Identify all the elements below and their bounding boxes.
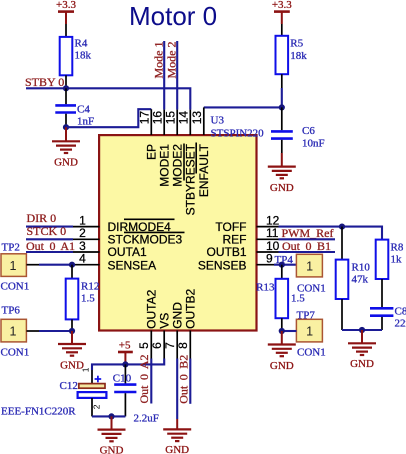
- svg-text:STBY 0: STBY 0: [25, 75, 64, 89]
- svg-text:16: 16: [150, 111, 164, 125]
- node TOFF/R10 junction: [339, 224, 345, 230]
- svg-text:GND: GND: [350, 358, 374, 370]
- wire STBY 0 to pin 14: [26, 88, 190, 109]
- wire REF pin 11: [279, 238, 336, 240]
- wire OUTA2 pin 5: [150, 359, 152, 404]
- svg-text:1.5: 1.5: [81, 293, 95, 305]
- wire bottom node R10 to C8: [342, 329, 382, 331]
- pin 8 stub: [176, 331, 190, 359]
- wire +3.3 to R4: [65, 24, 67, 37]
- pin name STBYRESET with overline on RESET: [184, 143, 198, 215]
- svg-text:EEE-FN1C220R: EEE-FN1C220R: [1, 406, 76, 418]
- svg-text:1nF: 1nF: [77, 116, 94, 128]
- svg-text:DIR 0: DIR 0: [27, 211, 57, 225]
- pin 1 stub: [73, 213, 100, 227]
- power +3.3 (left): [56, 0, 76, 24]
- svg-text:1.5: 1.5: [291, 293, 305, 305]
- wire Mode 1 to pin 16: [163, 41, 165, 110]
- svg-text:C8: C8: [395, 306, 406, 318]
- svg-text:1: 1: [81, 367, 91, 372]
- svg-text:Out 0 A2: Out 0 A2: [137, 354, 151, 403]
- wire R8 to C8: [381, 279, 383, 307]
- node C12/C10/GND junction: [108, 413, 114, 419]
- connector TP7: [296, 309, 325, 358]
- wire DIR 0 to pin 1: [26, 226, 73, 228]
- resistor R8: [376, 240, 404, 279]
- capacitor C6: [271, 125, 325, 150]
- svg-text:C12: C12: [60, 380, 78, 392]
- capacitor C4: [55, 104, 94, 128]
- svg-text:OUTB2: OUTB2: [184, 288, 198, 328]
- svg-text:1: 1: [306, 260, 313, 274]
- pin name TOFF: [215, 220, 246, 234]
- svg-text:R13: R13: [256, 282, 275, 294]
- svg-text:1: 1: [10, 259, 17, 273]
- pin 17 stub: [138, 109, 152, 135]
- pin 2 stub: [73, 226, 100, 240]
- wire junction to C6: [281, 107, 283, 130]
- pin 13 stub: [190, 107, 204, 135]
- connector TP2: [1, 241, 30, 292]
- net label TP4: [275, 254, 294, 266]
- resistor R13: [256, 279, 305, 318]
- wire OUTB1 pin 10: [279, 251, 336, 253]
- net label Out 0 B2 (vertical): [176, 355, 190, 404]
- node STBY junction: [63, 85, 69, 91]
- ground GND (under C4): [52, 127, 80, 168]
- title Motor 0: [129, 1, 217, 31]
- svg-text:2.2uF: 2.2uF: [134, 413, 159, 425]
- svg-text:STCK 0: STCK 0: [27, 224, 67, 238]
- wire R4 to STBY node: [65, 75, 67, 88]
- svg-text:SENSEB: SENSEB: [198, 258, 247, 272]
- wire to C12 top: [91, 370, 93, 384]
- wire R13 to GND node: [281, 318, 283, 331]
- node TP2/R12 junction: [69, 262, 75, 268]
- power +5: [118, 339, 133, 364]
- wire TOFF junction to R10: [341, 227, 343, 260]
- svg-text:4: 4: [79, 252, 86, 266]
- net label STBY 0: [25, 75, 64, 89]
- svg-text:10nF: 10nF: [302, 138, 325, 150]
- svg-text:2: 2: [92, 404, 102, 409]
- net label PWM_Ref: [282, 226, 334, 240]
- svg-text:18k: 18k: [75, 50, 92, 62]
- svg-text:5: 5: [137, 342, 151, 349]
- pin 4 stub: [73, 252, 100, 266]
- svg-text:1: 1: [10, 325, 17, 339]
- svg-text:7: 7: [163, 342, 177, 349]
- pin 12 stub: [257, 213, 280, 227]
- svg-text:U3: U3: [211, 115, 225, 127]
- pin name MODE1: [158, 144, 172, 187]
- svg-text:22nF: 22nF: [395, 318, 406, 330]
- ground GND (under C6): [268, 153, 296, 194]
- svg-text:14: 14: [177, 111, 191, 125]
- wire OUTB2 pin 8: [189, 359, 191, 404]
- net label STCK 0: [27, 224, 67, 238]
- pin name SENSEA: [108, 258, 157, 272]
- node TP6/R12/GND junction: [69, 328, 75, 334]
- ground GND (under R13): [268, 331, 296, 372]
- ground GND (under C12/C10): [98, 416, 126, 454]
- svg-text:GND: GND: [270, 360, 294, 372]
- svg-text:GND: GND: [270, 182, 294, 194]
- pin name OUTA1: [108, 245, 147, 259]
- pin name MODE2: [171, 144, 185, 187]
- connector TP6: [1, 304, 30, 358]
- svg-text:1: 1: [306, 325, 313, 339]
- svg-text:VS: VS: [158, 313, 172, 329]
- svg-text:15: 15: [163, 111, 177, 125]
- wire R12 to GND node: [71, 319, 73, 331]
- pin name OUTB1: [206, 245, 246, 259]
- pin name OUTB2: [184, 288, 198, 328]
- wire TP2 to pin 4: [27, 264, 74, 266]
- svg-text:GND: GND: [54, 156, 78, 168]
- wire STBY to C4: [65, 88, 67, 104]
- node C4 bottom junction: [63, 124, 69, 130]
- pin name DIRMODE4 with overline on MODE4: [108, 219, 175, 234]
- svg-text:17: 17: [138, 111, 152, 125]
- wire pin 9 to TP4: [274, 264, 296, 266]
- svg-text:TP2: TP2: [2, 241, 20, 253]
- net label Mode 2 (vertical): [164, 42, 178, 79]
- wire junction to R13: [281, 265, 283, 279]
- svg-text:9: 9: [266, 252, 273, 266]
- wire VS pin 6 to C12: [92, 359, 164, 371]
- wire STCK 0 to pin 2: [26, 238, 73, 240]
- svg-text:1k: 1k: [391, 254, 403, 266]
- pin name VS: [158, 313, 172, 329]
- svg-text:+3.3: +3.3: [56, 0, 76, 11]
- svg-text:OUTA2: OUTA2: [145, 289, 159, 328]
- ground GND (pin 7): [163, 419, 191, 454]
- pin 7 stub: [163, 331, 177, 359]
- svg-text:C4: C4: [77, 104, 90, 116]
- svg-text:47k: 47k: [352, 274, 369, 286]
- wire pin 12 to R8: [279, 227, 383, 240]
- capacitor C12 (polarized): [1, 367, 106, 417]
- wire Out 0 A1 to pin 3: [26, 251, 73, 253]
- svg-text:R8: R8: [391, 242, 404, 254]
- wire junction to C10: [124, 364, 126, 383]
- svg-text:CON1: CON1: [1, 280, 30, 292]
- svg-text:6: 6: [150, 342, 164, 349]
- svg-text:8: 8: [176, 342, 190, 349]
- svg-text:ENFAULT: ENFAULT: [197, 143, 211, 197]
- pin 9 stub: [257, 252, 279, 266]
- net label Out 0 B1: [282, 239, 331, 253]
- net label DIR 0: [27, 211, 57, 225]
- svg-text:TP6: TP6: [2, 304, 21, 316]
- net label Out 0 A1: [26, 239, 75, 253]
- resistor R5: [276, 36, 308, 74]
- node +5/VS junction: [122, 361, 128, 367]
- svg-text:C6: C6: [302, 125, 315, 137]
- svg-text:18k: 18k: [290, 50, 307, 62]
- svg-text:+5: +5: [119, 339, 131, 351]
- pin 16 stub: [150, 110, 164, 135]
- pin name SENSEB: [198, 258, 247, 272]
- wire TP7 to GND node: [282, 330, 297, 332]
- capacitor C8: [370, 306, 406, 330]
- svg-text:R10: R10: [352, 262, 371, 274]
- svg-text:GND: GND: [165, 444, 189, 454]
- wire pin 13 to R5 junction: [204, 106, 282, 108]
- ground GND (under R12): [58, 331, 86, 371]
- power +3.3 (right): [272, 0, 292, 24]
- wire TP6 to GND node: [27, 330, 73, 332]
- resistor R4: [60, 37, 92, 75]
- ground GND (under R10/C8): [348, 330, 376, 370]
- svg-text:13: 13: [190, 111, 204, 125]
- wire C4 node to pin 17 (EP): [66, 109, 151, 127]
- svg-text:GND: GND: [100, 444, 124, 454]
- op-amp U3 chip body: [99, 115, 264, 331]
- wire R10 to bottom node: [341, 299, 343, 330]
- pin 11 stub: [257, 226, 279, 240]
- pin 14 stub: [177, 110, 191, 135]
- svg-text:R4: R4: [75, 38, 88, 50]
- svg-text:STSPIN220: STSPIN220: [211, 127, 265, 139]
- pin name GND: [171, 302, 185, 329]
- wire C12 to C10 bottom: [92, 415, 125, 417]
- svg-text:Out 0 A1: Out 0 A1: [26, 239, 75, 253]
- wire C10 bottom: [124, 393, 126, 416]
- pin name EP: [145, 144, 159, 160]
- svg-text:SENSEA: SENSEA: [108, 258, 157, 272]
- wire +3.3 to R5: [281, 24, 283, 36]
- pin 10 stub: [257, 239, 280, 253]
- net label Mode 1 (vertical): [151, 42, 165, 79]
- connector TP4: [296, 254, 325, 294]
- wire C12 bottom: [91, 398, 93, 416]
- node R13/TP7/GND junction: [279, 328, 285, 334]
- wire C8 to bottom node: [381, 317, 383, 330]
- wire C6 to GND: [281, 140, 283, 153]
- svg-text:CON1: CON1: [297, 347, 326, 359]
- svg-text:R12: R12: [81, 281, 99, 293]
- svg-text:Out 0 B1: Out 0 B1: [282, 239, 331, 253]
- wire junction to R12: [71, 265, 73, 279]
- svg-text:EP: EP: [145, 144, 159, 160]
- svg-text:MODE2: MODE2: [171, 144, 185, 187]
- wire C4 to GND node: [65, 114, 67, 128]
- node SENSEB/R13 junction: [279, 262, 285, 268]
- pin name STCKMODE3 with overline on MODE3: [108, 232, 185, 246]
- svg-text:CON1: CON1: [1, 346, 30, 358]
- svg-text:R5: R5: [290, 38, 303, 50]
- pin 15 stub: [163, 110, 177, 135]
- svg-text:GND: GND: [171, 302, 185, 329]
- node R5/C6 junction: [279, 104, 285, 110]
- node R10/C8/GND junction: [359, 327, 365, 333]
- pin 6 stub: [150, 331, 164, 359]
- svg-text:OUTA1: OUTA1: [108, 245, 147, 259]
- svg-text:C10: C10: [113, 373, 132, 385]
- svg-text:OUTB1: OUTB1: [206, 245, 246, 259]
- wire GND pin 7: [176, 359, 178, 420]
- wire R5 to junction: [281, 74, 283, 107]
- net label Out 0 A2 (vertical): [137, 354, 151, 403]
- pin 5 stub: [137, 331, 151, 359]
- svg-text:Motor 0: Motor 0: [129, 1, 217, 31]
- svg-text:Out 0 B2: Out 0 B2: [176, 355, 190, 404]
- resistor R12: [66, 279, 100, 320]
- pin 3 stub: [73, 239, 100, 253]
- pin name ENFAULT with overline on FAULT: [196, 143, 211, 198]
- svg-text:MODE1: MODE1: [158, 144, 172, 187]
- resistor R10: [336, 260, 371, 299]
- wire Mode 2 to pin 15: [176, 41, 178, 110]
- pin name OUTA2: [145, 289, 159, 328]
- capacitor C10: [113, 373, 159, 425]
- pin name REF: [223, 233, 247, 247]
- svg-text:+3.3: +3.3: [272, 0, 292, 11]
